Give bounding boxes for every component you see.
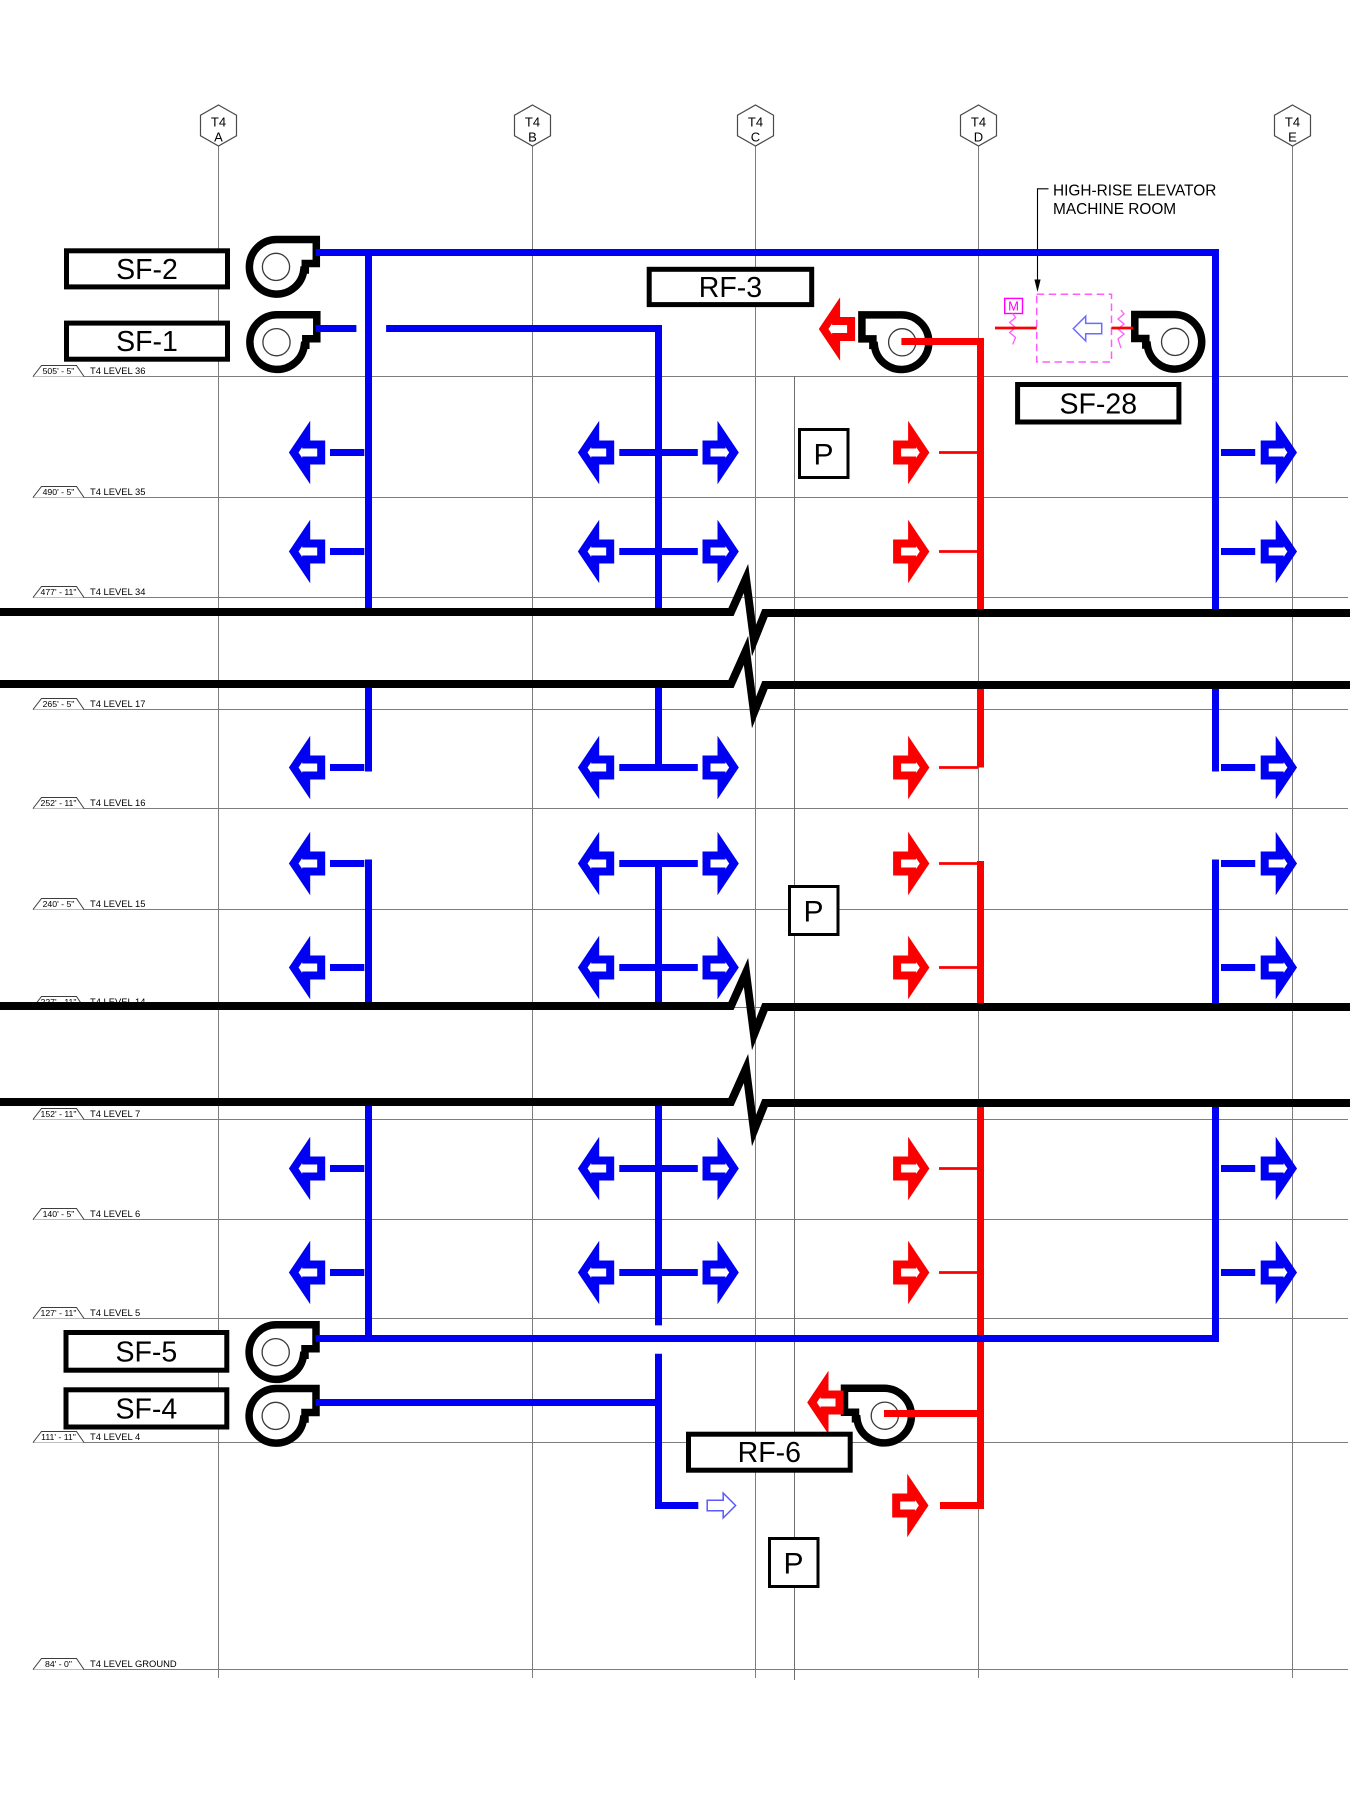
grid bubble T4 C [738,105,774,146]
grid line T4 B [532,146,534,1678]
svg-text:C: C [751,130,760,145]
svg-text:T4 LEVEL 15: T4 LEVEL 15 [90,898,145,909]
elevation tag 84' - 0" T4 LEVEL GROUND [33,1659,84,1670]
level line T4 LEVEL 6 [33,1219,1348,1221]
svg-text:152' - 11": 152' - 11" [41,1109,77,1119]
arrow row at level y=767.5 [294,749,1292,786]
grid line T4 A [218,146,220,1678]
fan RF-6 [845,1388,912,1443]
duct: left riser segment levels 15-14 [365,860,372,1007]
duct: SF-2 main supply with right riser down [316,253,1216,613]
svg-text:P: P [813,439,833,472]
level line T4 LEVEL 16 [33,808,1348,810]
svg-text:490' - 5": 490' - 5" [43,487,75,497]
red exhaust arrow at RF-3 inlet [824,310,852,347]
svg-text:P: P [803,896,823,929]
level line T4 LEVEL 15 [33,909,1348,911]
duct: left riser segment levels 17-16 [365,684,372,772]
duct: centre riser segment levels 15-14 [655,864,662,1007]
svg-text:T4 LEVEL 36: T4 LEVEL 36 [90,365,145,376]
match-line break [0,579,1350,641]
arrow row at level y=1168.5 [294,1150,1292,1187]
elevation tag 111' - 11" T4 LEVEL 4 [33,1432,84,1443]
red exhaust arrow at RF-6 inlet [812,1384,840,1421]
level line T4 LEVEL 4 [33,1442,1348,1444]
svg-text:84' - 0": 84' - 0" [45,1659,72,1669]
wire: thin red line M-box to dashed box [995,327,1037,330]
svg-text:M: M [1008,299,1019,314]
label RF-3 [649,269,812,304]
svg-text:D: D [974,130,983,145]
fan SF-2 [249,239,316,294]
level line T4 LEVEL 7 [33,1119,1348,1121]
svg-text:240' - 5": 240' - 5" [43,899,75,909]
arrow row at level y=551.5 [294,533,1292,570]
pressure sensor box middle [790,887,839,935]
grid line T4 E [1292,146,1294,1678]
duct: left riser from SF-2 line [365,253,372,613]
wire: thin red line dashed box to SF-28 [1112,327,1134,330]
dashed equipment boundary box [1037,294,1112,362]
fan SF-5 [249,1325,316,1380]
match-line break [0,1069,1350,1131]
fan SF-4 [249,1388,316,1443]
elevation tag 265' - 5" T4 LEVEL 17 [33,699,84,710]
svg-text:RF-3: RF-3 [699,272,762,304]
level line T4 LEVEL 34 [33,597,1348,599]
svg-text:140' - 5": 140' - 5" [43,1209,75,1219]
elevation tag 227' - 11" T4 LEVEL 14 [33,997,84,1008]
svg-text:T4 LEVEL 34: T4 LEVEL 34 [90,586,145,597]
svg-text:T4 LEVEL 35: T4 LEVEL 35 [90,486,145,497]
fan SF-28 [1135,314,1202,369]
elevation tag 477' - 11" T4 LEVEL 34 [33,587,84,598]
duct: left riser lower segment to SF-5 line [365,1102,372,1342]
arrow row at level y=1272.5 [294,1254,1292,1291]
duct: red riser segment (levels 15-14) [977,861,984,1006]
grid bubble T4 A [201,105,237,146]
svg-text:A: A [214,130,223,145]
label SF-28 [1018,385,1179,423]
pressure sensor box lower [770,1539,819,1587]
svg-text:127' - 11": 127' - 11" [41,1308,77,1318]
svg-text:111' - 11": 111' - 11" [41,1432,76,1442]
match-line break [0,651,1350,713]
duct: SF-1 line to centre riser, elbow down [386,329,658,613]
elevation tag 505' - 5" T4 LEVEL 36 [33,366,84,377]
duct: SF-1 discharge stub [316,325,357,332]
red exhaust arrow at riser bottom [896,1487,924,1524]
motor starter M tag [1005,298,1023,313]
svg-text:477' - 11": 477' - 11" [41,587,77,597]
svg-text:265' - 5": 265' - 5" [43,699,75,709]
level line T4 LEVEL 36 [33,376,1348,378]
level line T4 LEVEL 14 [33,1007,1348,1009]
pressure sensor box upper [800,430,849,478]
svg-text:RF-6: RF-6 [738,1437,801,1469]
duct: right riser segment levels 17-16 [1212,684,1219,772]
svg-text:E: E [1288,130,1297,145]
label SF-4 [66,1390,227,1427]
svg-text:HIGH-RISE ELEVATOR: HIGH-RISE ELEVATOR [1053,183,1216,200]
arrow row at level y=967.5 [294,949,1292,986]
svg-text:252' - 11": 252' - 11" [41,798,77,808]
elevation tag 140' - 5" T4 LEVEL 6 [33,1209,84,1220]
svg-text:T4 LEVEL 17: T4 LEVEL 17 [90,698,145,709]
svg-text:T4: T4 [525,115,540,130]
elevation tag 252' - 11" T4 LEVEL 16 [33,798,84,809]
leader line to elevator machine room [1038,189,1049,281]
svg-text:B: B [528,130,537,145]
svg-text:T4 LEVEL 6: T4 LEVEL 6 [90,1208,140,1219]
level line T4 LEVEL GROUND [33,1669,1348,1671]
svg-text:P: P [783,1548,803,1581]
wire: thin pressure sensor riser line [794,376,796,1680]
grid bubble T4 D [961,105,997,146]
flex connector hatch (right) [1118,310,1124,348]
label SF-5 [66,1333,227,1371]
duct: RF-3 discharge to red riser, elbow down [901,342,980,613]
arrow row at level y=452.5 [294,434,1292,471]
svg-text:T4 LEVEL 5: T4 LEVEL 5 [90,1307,140,1318]
duct: centre riser segment levels 17-16 [655,684,662,768]
duct: centre riser below SF-5 line, elbow to relief arrow [659,1354,699,1506]
svg-text:505' - 5": 505' - 5" [43,366,75,376]
arrow row at level y=863.5 [294,845,1292,882]
svg-text:MACHINE ROOM: MACHINE ROOM [1053,201,1176,218]
elevation tag 240' - 5" T4 LEVEL 15 [33,899,84,910]
grid bubble T4 B [515,105,551,146]
duct: centre riser lower segment (break at SF-5 crossing) [655,1102,662,1325]
grid line T4 C [755,146,757,1678]
relief air outline arrow (bottom centre) [707,1493,735,1518]
duct: red riser segment (levels 17-16) down to arrow row [977,684,984,768]
svg-text:T4: T4 [971,115,986,130]
svg-text:T4: T4 [1285,115,1300,130]
svg-text:SF-2: SF-2 [116,254,178,286]
elevator room intake outline arrow [1073,316,1101,341]
level line T4 LEVEL 17 [33,709,1348,711]
grid line T4 D [978,146,980,1678]
duct: SF-4 supply line to centre riser [316,1399,659,1406]
svg-text:SF-4: SF-4 [116,1393,178,1425]
svg-text:T4 LEVEL 16: T4 LEVEL 16 [90,797,145,808]
duct: red riser lower segment with bottom elbow [940,1102,981,1506]
duct: RF-6 discharge to red riser [884,1410,981,1417]
label RF-6 [689,1434,851,1470]
svg-text:SF-28: SF-28 [1059,388,1137,420]
svg-text:T4: T4 [211,115,226,130]
duct: right riser lower segment + SF-5 main supply line [316,1102,1216,1339]
svg-text:SF-1: SF-1 [116,326,178,358]
flex connector hatch (left) [1010,314,1016,345]
svg-text:T4 LEVEL 7: T4 LEVEL 7 [90,1108,140,1119]
svg-text:SF-5: SF-5 [116,1336,178,1368]
level line T4 LEVEL 35 [33,497,1348,499]
fan SF-1 [250,315,317,370]
grid bubble T4 E [1275,105,1311,146]
elevation tag 152' - 11" T4 LEVEL 7 [33,1109,84,1120]
duct: right riser segment levels 15-14 [1212,860,1219,1007]
svg-text:T4: T4 [748,115,763,130]
svg-text:T4 LEVEL 4: T4 LEVEL 4 [90,1431,140,1442]
match-line break [0,973,1350,1035]
svg-text:T4 LEVEL GROUND: T4 LEVEL GROUND [90,1658,177,1669]
label SF-1 [67,323,228,359]
fan RF-3 [862,315,929,370]
elevation tag 490' - 5" T4 LEVEL 35 [33,487,84,498]
label SF-2 [67,251,228,287]
level line T4 LEVEL 5 [33,1318,1348,1320]
elevation tag 127' - 11" T4 LEVEL 5 [33,1308,84,1319]
